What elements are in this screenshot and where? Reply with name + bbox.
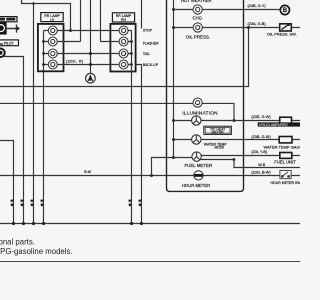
meter cluster box — [167, 0, 244, 191]
wire stop row — [44, 30, 132, 32]
lamp box RR LAMP LH — [38, 24, 64, 71]
svg-text:STOP: STOP — [143, 28, 153, 32]
svg-text:HOUR METER SW: HOUR METER SW — [271, 181, 301, 185]
svg-text:OIL PRESS.: OIL PRESS. — [186, 35, 210, 40]
wire vertical x=23.5 from pilot lamp down to bus — [4, 57, 24, 224]
lamp L2 flasher LH — [48, 37, 57, 46]
svg-text:.PG-gasoline models.: .PG-gasoline models. — [0, 247, 73, 256]
meter hour — [194, 171, 203, 180]
wire tail row — [44, 53, 132, 55]
wire vertical x=141.5 backup RH down to bus — [136, 65, 142, 224]
wire oil press row — [174, 27, 301, 29]
label black amplifier bar — [258, 122, 300, 126]
node dots lamp commons — [42, 40, 133, 66]
connector pair symbols on six verticals — [11, 200, 142, 207]
svg-text:CHG: CHG — [193, 15, 203, 20]
wire illumination to heat meter row — [202, 103, 234, 120]
lamp L4 backup LH — [48, 60, 57, 69]
wire vertical x=80.5 flasher LH up to top — [80, 0, 82, 42]
wire illumination feed y=103.5 — [0, 102, 193, 104]
lamp R4 backup RH — [119, 60, 128, 69]
sender fuel unit — [280, 153, 292, 159]
wire heat meter row — [174, 120, 301, 122]
wire vertical x=90.5 down to ground point A — [90, 0, 92, 73]
svg-text:OIL PRESS. SW.: OIL PRESS. SW. — [267, 31, 297, 36]
wire hour meter row — [203, 175, 300, 177]
svg-text:FUEL UNIT: FUEL UNIT — [274, 159, 296, 164]
wire vertical x=13.5 from left-edge wire down to bus — [0, 141, 14, 224]
wire ground bus bottom — [0, 223, 300, 225]
wire CHG row — [174, 9, 281, 11]
svg-text:TAIL: TAIL — [143, 52, 150, 56]
svg-text:FLASHER: FLASHER — [143, 41, 159, 45]
wire top-left feed to stop row — [22, 0, 71, 31]
svg-text:(23B, G-W): (23B, G-W) — [251, 135, 271, 139]
wire license lamp terminator arrow — [5, 25, 20, 33]
switch hour meter — [280, 170, 291, 178]
lamp pilot (cut at edge) — [0, 48, 5, 57]
svg-text:LH: LH — [50, 18, 55, 22]
lamp L1 stop LH — [48, 26, 57, 35]
sender water temp gauge unit — [279, 137, 292, 143]
meter water temp — [192, 135, 201, 144]
label T/C HEAT METER — [210, 128, 225, 135]
lamp L3 tail LH — [48, 49, 57, 58]
lamp illumination — [193, 98, 202, 107]
meter fuel — [192, 152, 201, 161]
wire flasher row — [44, 41, 132, 43]
meter A/C heat — [192, 116, 201, 125]
node junction (173.5,157.5) — [172, 156, 175, 159]
wire water temp row — [174, 139, 301, 141]
license lamp label box (cut) — [0, 17, 17, 22]
lamp R1 stop RH — [119, 26, 128, 35]
svg-text:BACK-UP: BACK-UP — [143, 63, 159, 67]
svg-text:RH: RH — [121, 18, 126, 22]
node junction (151.5,175.5) — [150, 174, 153, 177]
lamp common RH down to bus — [131, 31, 133, 224]
wire fuel row left — [174, 157, 193, 159]
svg-text:WATER TEMP GAUGE: WATER TEMP GAUGE — [264, 144, 301, 149]
node junction (33.5,3.5) — [32, 2, 35, 5]
switch oil pressure — [280, 24, 292, 31]
svg-text:METER: METER — [215, 146, 225, 150]
svg-text:B-W: B-W — [84, 170, 92, 174]
power bus x=173.5 — [173, 0, 175, 158]
svg-text:(20D, R): (20D, R) — [66, 59, 84, 64]
label box RR LAMP RH — [112, 13, 134, 22]
wire backup row — [44, 64, 132, 66]
wire fuel meter minus drop — [152, 158, 174, 176]
node junction (234,120.5) — [233, 119, 236, 122]
svg-text:W-B: W-B — [258, 163, 265, 167]
lamp OIL PRESS — [193, 23, 202, 32]
node bus junctions — [12, 222, 143, 225]
connector B circled — [280, 5, 289, 14]
svg-text:▬ PILOT: ▬ PILOT — [0, 42, 14, 46]
svg-text:(23I, Y-B): (23I, Y-B) — [251, 150, 268, 154]
lamp CHG — [193, 5, 202, 14]
wire fuel minus to W-B — [201, 160, 301, 168]
wire vertical x=43.5 lamp common down to bus — [43, 31, 45, 224]
svg-text:ILLUMINATION: ILLUMINATION — [182, 110, 218, 116]
svg-text:METER: METER — [212, 131, 224, 135]
svg-text:B: B — [283, 8, 288, 14]
wire vertical x=141.5 from top to stop label — [141, 0, 143, 29]
lamp R3 tail RH — [119, 49, 128, 58]
wire vertical x=33.5 down to bus — [33, 4, 35, 224]
lamp license (cut at edge) — [0, 22, 6, 34]
pilot label box (cut) — [0, 40, 19, 46]
svg-text:HOUR METER: HOUR METER — [182, 183, 210, 188]
wire B-W ground return y=175.5 — [0, 175, 194, 177]
lamp box RR LAMP RH — [110, 24, 135, 72]
svg-text:LPG-E1 AMPLIFIER: LPG-E1 AMPLIFIER — [259, 123, 289, 127]
node junction (248.5,27.5) — [247, 26, 250, 29]
wire fuel row to fuel unit — [201, 155, 300, 157]
svg-text:(23A, G-B): (23A, G-B) — [248, 22, 267, 26]
label box T/C HEAT METER — [204, 126, 232, 134]
label box RR LAMP LH — [41, 13, 63, 22]
node junction (234,159.5) — [233, 158, 236, 161]
svg-text:onal parts.: onal parts. — [0, 238, 35, 247]
wire vertical x=100.5 flasher RH from top — [100, 0, 102, 42]
lamp R2 flasher RH — [119, 37, 128, 46]
svg-text:(23G, B-W): (23G, B-W) — [251, 171, 271, 175]
svg-text:(23E, G-W): (23E, G-W) — [251, 115, 271, 119]
wire ground line y=86 — [0, 28, 249, 87]
svg-text:(24B, G-Y): (24B, G-Y) — [248, 4, 267, 8]
ground point A circled — [86, 73, 96, 83]
svg-text:HOT WEATHER: HOT WEATHER — [181, 0, 212, 3]
resistor heat indicator — [280, 117, 292, 124]
rule under notes — [0, 261, 300, 263]
svg-text:FUEL METER: FUEL METER — [185, 163, 213, 168]
node junction (70.5,30.5) — [69, 29, 72, 32]
